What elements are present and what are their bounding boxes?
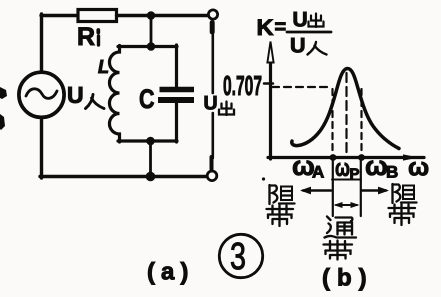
wire left vertical xyxy=(40,14,43,72)
graph y-axis xyxy=(269,60,272,159)
capacitor C bottom plate xyxy=(158,97,194,103)
dashed line at omega A xyxy=(331,89,333,155)
wire tank bottom horizontal xyxy=(118,139,177,142)
wire output stub above bottom terminal xyxy=(210,157,214,169)
formula fraction bar xyxy=(287,31,331,34)
svg-text:ω: ω xyxy=(365,151,388,181)
scan edge blob left upper xyxy=(0,87,7,99)
resonance curve xyxy=(292,69,399,149)
node junction on top wire xyxy=(147,11,156,20)
terminal bottom-right xyxy=(207,171,217,181)
capacitor C top plate xyxy=(160,87,195,93)
svg-text:3: 3 xyxy=(230,236,246,278)
svg-text:K: K xyxy=(257,15,275,40)
speck below axis origin xyxy=(262,177,265,180)
label U_in hanzi ru (enter) xyxy=(86,95,105,109)
node junction tank bottom xyxy=(146,137,155,146)
wire output stub below top terminal xyxy=(210,23,215,33)
hanzi tong (pass) xyxy=(325,217,357,238)
wire top-right horizontal xyxy=(117,14,209,17)
wire output vertical upper xyxy=(212,30,215,93)
hanzi dai (band) right xyxy=(389,204,416,225)
wire tank bottom connector vertical xyxy=(149,141,152,177)
stopband arrow left xyxy=(303,189,331,192)
svg-text:C: C xyxy=(139,84,155,114)
dashed line at omega P xyxy=(345,73,347,155)
dashed level line 0.707 xyxy=(272,86,332,88)
svg-text:U: U xyxy=(67,82,84,108)
node junction tank top xyxy=(147,42,156,51)
passband width arrows xyxy=(336,204,357,206)
node dot omega A on axis xyxy=(330,154,337,161)
inductor L coil xyxy=(109,46,119,143)
hanzi zu (stop) right xyxy=(393,184,417,203)
svg-text:B: B xyxy=(386,163,398,182)
ac source U1 circle xyxy=(19,72,64,117)
passband left boundary line xyxy=(332,158,334,216)
wire tank top horizontal xyxy=(118,45,177,48)
scan edge blob left lower xyxy=(0,114,5,130)
svg-text:P: P xyxy=(350,166,360,183)
formula numerator hanzi chu xyxy=(309,14,324,28)
node junction on bottom wire xyxy=(146,172,156,182)
resistor Ri body xyxy=(78,10,117,22)
svg-text:U: U xyxy=(293,9,308,32)
svg-text:(a): (a) xyxy=(147,259,194,286)
ac source sine wave xyxy=(26,89,57,99)
wire output vertical lower xyxy=(212,113,215,158)
graph x-axis xyxy=(268,156,424,159)
svg-text:U: U xyxy=(290,34,306,58)
wire tank top connector vertical xyxy=(150,16,153,47)
formula denominator hanzi ru xyxy=(308,42,327,55)
svg-text:U: U xyxy=(204,93,218,115)
stopband arrow right xyxy=(362,189,387,192)
node dot omega B on axis xyxy=(358,154,365,161)
terminal top-right xyxy=(208,10,217,19)
hanzi zu (stop) left xyxy=(270,185,295,204)
svg-text:A: A xyxy=(312,163,324,182)
figure number circle 3 xyxy=(219,234,262,277)
tick 0.707 on y-axis xyxy=(264,82,273,85)
svg-text:R: R xyxy=(77,23,95,51)
hanzi dai (band) passband xyxy=(324,241,353,260)
graph x-axis arrowhead xyxy=(403,154,419,160)
svg-text:ω: ω xyxy=(335,155,350,182)
omega P box bottom xyxy=(332,179,361,181)
svg-text:L: L xyxy=(98,57,109,77)
svg-text:ω: ω xyxy=(408,154,429,182)
passband right boundary line xyxy=(360,158,362,216)
graph y-axis arrowhead xyxy=(267,42,273,63)
hanzi dai (band) left xyxy=(267,205,294,226)
dashed line at omega B xyxy=(360,89,362,155)
wire tank right lower vertical xyxy=(175,103,178,142)
wire bottom horizontal xyxy=(40,175,206,178)
wire tank right upper vertical xyxy=(175,45,178,88)
svg-text:=: = xyxy=(275,17,287,39)
label U_out hanzi chu (out) xyxy=(219,102,234,116)
svg-text:0.707: 0.707 xyxy=(223,70,262,101)
wire below source vertical xyxy=(40,118,43,178)
svg-text:(b): (b) xyxy=(322,265,374,292)
wire top-left horizontal xyxy=(41,14,78,17)
